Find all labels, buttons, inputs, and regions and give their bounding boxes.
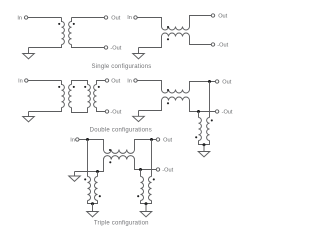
ground G6 symbol (69, 176, 81, 181)
wire In to L3 (137, 81, 161, 90)
phase dot T3 primary (84, 86, 86, 88)
terminal In circuit 4 (134, 79, 137, 82)
wire L3 to +Out (190, 82, 216, 90)
svg-text:Out: Out (218, 13, 227, 19)
transformer T6 secondary winding (149, 177, 152, 201)
transformer T5 secondary winding (95, 177, 98, 201)
ground G4 stem (138, 111, 140, 117)
transformer T4 primary winding (199, 118, 202, 141)
wire T1 secondary to +Out (72, 17, 105, 19)
transformer T1 primary winding (62, 18, 65, 45)
phase dot T2 primary (58, 86, 60, 88)
wire L1 to +Out (190, 16, 212, 27)
wire L2 to -Out (190, 37, 212, 45)
phase dot T2 secondary (73, 86, 75, 88)
transformer T3 primary winding (88, 85, 91, 108)
svg-text:-Out: -Out (110, 45, 121, 51)
terminal +Out circuit 1 (104, 16, 107, 19)
wire +Out node to T4 secondary (209, 82, 211, 118)
wire L4 to ground (139, 101, 162, 111)
svg-text:Out: Out (163, 137, 172, 143)
T1 secondary lead to -Out (72, 45, 105, 48)
svg-text:Out: Out (111, 78, 120, 84)
ground G1 stem (28, 48, 30, 54)
terminal +Out circuit 4 (215, 80, 218, 83)
junction node +Out circuit 5 (150, 138, 153, 141)
wire In to L5 (79, 140, 103, 150)
svg-text:Out: Out (111, 15, 120, 21)
transformer T1 secondary winding (69, 18, 72, 45)
junction node -Out to T6 primary (139, 168, 142, 171)
wire L4 to -Out (190, 101, 216, 112)
inductor L6 bottom winding (104, 156, 135, 160)
transformer T4 secondary winding (207, 118, 210, 141)
terminal In circuit 2 (134, 16, 137, 19)
terminal +Out circuit 2 (211, 14, 214, 17)
transformer T2 primary winding (62, 81, 65, 108)
phase dot L6 (109, 161, 111, 163)
phase dot L1 (167, 26, 169, 28)
svg-text:Double configurations: Double configurations (90, 127, 152, 133)
wire L6 to ground bus (75, 160, 104, 172)
svg-text:-Out: -Out (110, 109, 121, 115)
transformer T3 secondary winding (94, 85, 97, 108)
wire L5 to +Out (135, 140, 157, 150)
ground G1 symbol (23, 54, 35, 59)
inductor L5 top winding (104, 150, 135, 154)
terminal +Out circuit 3 (105, 79, 108, 82)
svg-text:In: In (127, 79, 132, 85)
phase dot T4 primary (195, 136, 197, 138)
T4 primary lead (198, 112, 200, 118)
phase dot T4 secondary (211, 119, 213, 121)
svg-text:-Out: -Out (217, 42, 228, 48)
T4 bottom joining wire (199, 141, 210, 145)
terminal In circuit 5 (76, 138, 79, 141)
terminal -Out circuit 5 (156, 168, 159, 171)
ground G8 stem (145, 204, 147, 212)
junction node T4 bottom (203, 143, 206, 146)
wire -Out node to T6 primary (140, 170, 142, 177)
svg-text:In: In (70, 137, 75, 143)
junction node In circuit 5 (86, 138, 89, 141)
T5 bottom joining wire (88, 201, 98, 204)
inductor L2 bottom winding (162, 33, 190, 37)
svg-text:-Out: -Out (222, 109, 233, 115)
phase dot T3 secondary (98, 86, 100, 88)
svg-text:Single configurations: Single configurations (92, 64, 152, 70)
wire L2 to ground (139, 37, 162, 48)
ground G7 stem (92, 204, 94, 212)
terminal -Out circuit 2 (211, 43, 214, 46)
svg-text:Out: Out (222, 79, 231, 85)
inductor L1 top winding (162, 27, 190, 31)
wire In node to T5 primary (87, 140, 89, 177)
wire +Out node to T6 secondary (151, 140, 153, 177)
ground G3 stem (28, 112, 30, 117)
junction node T6 bottom (145, 202, 148, 205)
junction node T4 primary tap (197, 110, 200, 113)
phase dot T5 primary (84, 178, 86, 180)
phase dot L4 (167, 102, 169, 104)
wire T3 secondary to +Out (97, 81, 106, 85)
phase dot T6 primary (137, 195, 139, 197)
ground G6 stem (74, 172, 76, 177)
phase dot L3 (167, 89, 169, 91)
wire L6 to -Out (135, 160, 157, 170)
svg-text:In: In (127, 15, 132, 21)
wire T3 secondary to -Out (97, 108, 106, 112)
svg-text:In: In (18, 78, 23, 84)
transformer T5 primary winding (88, 177, 91, 201)
phase dot T1 primary (58, 23, 60, 25)
phase dot T1 secondary (73, 23, 75, 25)
junction node +Out circuit 4 (208, 80, 211, 83)
wire T2 secondary bottom to T3 primary (72, 108, 88, 113)
svg-text:-Out: -Out (162, 167, 173, 173)
phase dot T6 secondary (153, 178, 155, 180)
terminal -Out circuit 4 (215, 110, 218, 113)
wire In to T1 (28, 17, 62, 19)
ground G2 stem (138, 48, 140, 54)
wire In to T2 (28, 80, 61, 82)
T6 bottom joining wire (141, 201, 152, 204)
wire In to L1 (137, 18, 161, 27)
ground G5 stem (203, 145, 205, 152)
terminal +Out circuit 5 (156, 138, 159, 141)
terminal -Out circuit 1 (104, 46, 107, 49)
ground G5 symbol (198, 152, 210, 157)
svg-text:Triple configuration: Triple configuration (94, 221, 149, 227)
wire T2 secondary top to T3 primary (72, 81, 88, 85)
terminal In circuit 3 (25, 79, 28, 82)
T2 primary lead to ground (29, 108, 62, 112)
ground G7 symbol (87, 212, 99, 217)
phase dot L2 (167, 38, 169, 40)
svg-text:In: In (17, 15, 22, 21)
T1 primary lead to ground (29, 45, 62, 48)
terminal -Out circuit 3 (105, 110, 108, 113)
inductor L3 top winding (162, 90, 190, 94)
ground G4 symbol (133, 116, 145, 121)
wire bus node to T5 secondary (97, 172, 99, 177)
transformer T6 primary winding (141, 177, 144, 201)
phase dot L5 (109, 149, 111, 151)
inductor L4 bottom winding (162, 97, 190, 101)
phase dot T5 secondary (99, 195, 101, 197)
ground G8 symbol (140, 212, 152, 217)
transformer T2 secondary winding (69, 85, 72, 108)
junction node bus to T5 secondary (96, 170, 99, 173)
junction node T5 bottom (91, 202, 94, 205)
terminal In circuit 1 (24, 16, 27, 19)
ground G2 symbol (133, 54, 145, 59)
ground G3 symbol (23, 117, 35, 122)
